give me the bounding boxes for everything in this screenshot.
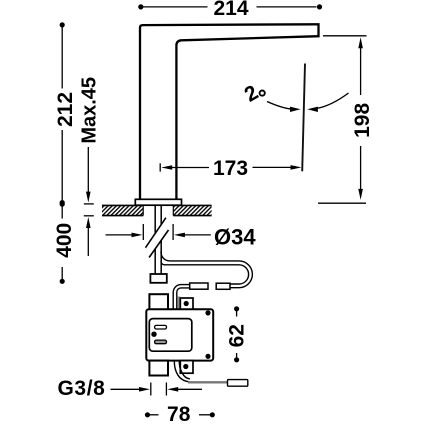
svg-text:62: 62 xyxy=(225,324,248,347)
dimension 62 dot top xyxy=(234,306,239,311)
cable U-turn outer xyxy=(230,261,252,288)
shank right line lower xyxy=(160,241,162,275)
counter top border left xyxy=(102,204,143,206)
cable from shank top line xyxy=(161,252,239,261)
dimension 62 stub bottom xyxy=(236,353,238,358)
dimension 173 line left xyxy=(170,167,209,169)
dimension 400 dot bottom xyxy=(60,279,65,284)
dimension 173 tick xyxy=(159,163,161,171)
dimension 212 line upper xyxy=(61,27,63,89)
faucet outline xyxy=(140,24,319,199)
svg-text:198: 198 xyxy=(351,103,374,138)
pipe break slash 1 xyxy=(146,218,166,248)
dimension 400 dot top xyxy=(60,202,65,207)
dimension 173 arrowhead right xyxy=(291,165,302,170)
dimension 214 line left xyxy=(143,6,208,8)
screw bottom bracket xyxy=(183,364,188,369)
dimension 78 line left xyxy=(150,414,159,416)
panel slot 2 xyxy=(155,340,167,344)
dimension 198 arrowhead up xyxy=(358,37,363,48)
dimension O34 line right xyxy=(183,234,211,236)
shank left line lower xyxy=(154,249,156,274)
angle arrowhead right xyxy=(307,107,318,112)
dimension 62 stub top xyxy=(236,311,238,317)
screw top bracket xyxy=(184,301,189,306)
counter bottom border right xyxy=(173,215,211,217)
counter hatch left band xyxy=(102,205,143,215)
dimension O34 tick right xyxy=(172,224,174,240)
svg-text:212: 212 xyxy=(54,92,77,127)
dimension 78 dot right xyxy=(210,412,215,417)
dimension 400 stub top xyxy=(61,206,63,218)
dimension O34 line left xyxy=(106,234,135,236)
extension line spout tip xyxy=(323,35,367,37)
dimension 78 dot left xyxy=(145,412,150,417)
water stream line xyxy=(302,64,305,172)
svg-text:G3/8: G3/8 xyxy=(58,377,106,400)
dimension 214 line right xyxy=(257,6,317,8)
left connector cable inner xyxy=(177,288,190,310)
dimension 214 dot right xyxy=(317,4,322,9)
sensor wire gray xyxy=(188,381,228,383)
left connector xyxy=(190,283,208,289)
svg-text:Max.45: Max.45 xyxy=(78,77,100,144)
supply fitting xyxy=(150,274,166,283)
counter top border right xyxy=(173,204,211,206)
dimension 78 line right xyxy=(199,414,210,416)
extension line counter top right xyxy=(318,202,366,204)
angle arc right xyxy=(316,93,349,109)
left connector cable outer xyxy=(173,285,190,310)
dimension 198 line upper xyxy=(360,46,362,95)
box inlet protrusion top xyxy=(149,294,168,309)
svg-text:214: 214 xyxy=(213,0,248,20)
control box body xyxy=(146,309,213,360)
degree sign xyxy=(260,91,265,96)
panel slot 1 xyxy=(155,325,167,329)
Max.45 arrow line down xyxy=(87,147,89,194)
cable from shank bottom line xyxy=(161,261,239,264)
faucet base flange xyxy=(135,199,181,205)
dimension 198 line lower xyxy=(360,146,362,191)
dimension O34 arrowhead left xyxy=(132,233,143,238)
sensor plug xyxy=(228,380,248,387)
counter hole edge left xyxy=(142,205,144,215)
screw box top right xyxy=(205,310,210,315)
box bottom bracket xyxy=(180,361,193,374)
dimension 212 dot top xyxy=(60,22,65,27)
Max.45 arrow line up tail xyxy=(87,226,89,256)
box top bracket xyxy=(180,298,193,310)
angle arc left xyxy=(267,102,292,110)
shank right line upper xyxy=(160,205,162,224)
counter bottom border left xyxy=(102,215,143,217)
svg-text:173: 173 xyxy=(213,157,248,180)
Max.45 arrowhead up xyxy=(86,217,91,228)
Max.45 tick top xyxy=(84,203,94,205)
Max.45 arrowhead down xyxy=(86,192,91,203)
dimension 212 line lower xyxy=(61,130,63,201)
dimension O34 arrowhead right xyxy=(174,233,185,238)
box outlet protrusion bottom xyxy=(149,361,168,376)
svg-text:400: 400 xyxy=(53,223,76,258)
dimension 212 dot bottom xyxy=(60,200,65,205)
G3/8 arrow line left xyxy=(111,388,143,390)
shank left line upper xyxy=(154,205,156,233)
counter hole edge right xyxy=(172,205,174,215)
G3/8 arrowhead right xyxy=(167,387,178,392)
screw box bottom right xyxy=(205,354,210,359)
dimension O34 tick left xyxy=(142,224,144,240)
Max.45 tick bottom xyxy=(84,215,94,217)
pipe break slash 2 xyxy=(149,230,168,258)
dimension 198 arrowhead down xyxy=(358,189,363,200)
G3/8 arrow line right xyxy=(176,388,202,390)
counter hatch right band xyxy=(173,205,211,215)
G3/8 tick right xyxy=(165,383,167,396)
G3/8 tick left xyxy=(150,383,152,396)
cable U-turn inner xyxy=(230,265,249,284)
dimension 62 dot bottom xyxy=(234,357,239,362)
sensor cable inner xyxy=(179,361,190,379)
gray strip beside bracket xyxy=(178,297,180,310)
G3/8 arrowhead left xyxy=(139,387,150,392)
dimension 173 arrowhead left xyxy=(161,165,172,170)
svg-text:78: 78 xyxy=(167,403,191,424)
panel dot xyxy=(151,332,156,337)
box front panel xyxy=(149,319,192,352)
angle arrowhead left xyxy=(290,107,301,112)
svg-text:Ø34: Ø34 xyxy=(214,224,256,249)
dimension 214 dot left xyxy=(138,4,143,9)
sensor cable outer xyxy=(174,361,190,382)
dimension 173 line right xyxy=(253,166,293,168)
dimension 400 stub bottom xyxy=(61,267,63,279)
right connector xyxy=(216,283,230,289)
